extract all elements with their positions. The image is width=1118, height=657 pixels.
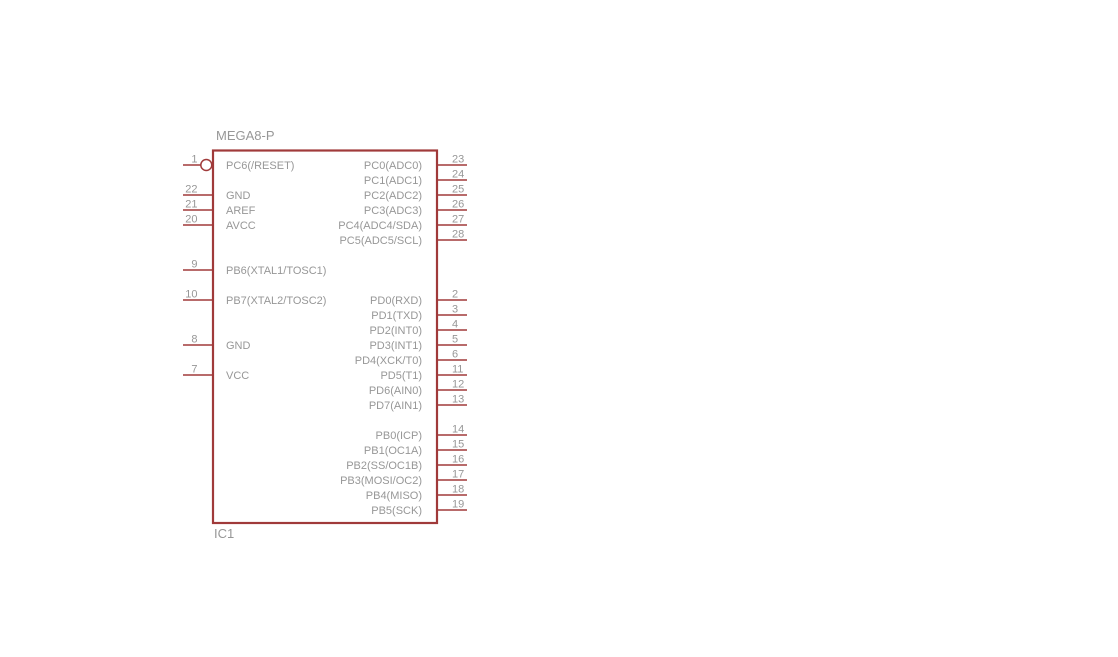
svg-text:13: 13 [452, 394, 464, 406]
IC1 pin 12 PD6 [369, 379, 467, 398]
svg-text:PC6(/RESET): PC6(/RESET) [226, 160, 294, 172]
IC1 pin 1 PC6(/RESET) [183, 154, 294, 173]
svg-text:17: 17 [452, 469, 464, 481]
svg-text:PB3(MOSI/OC2): PB3(MOSI/OC2) [340, 475, 422, 487]
IC1 pin 27 PC4 [338, 214, 467, 233]
svg-text:PB2(SS/OC1B): PB2(SS/OC1B) [346, 460, 422, 472]
svg-text:IC1: IC1 [214, 526, 234, 541]
svg-text:PC4(ADC4/SDA): PC4(ADC4/SDA) [338, 220, 422, 232]
IC1 pin 5 PD3 [369, 334, 467, 353]
svg-text:11: 11 [452, 364, 463, 376]
IC1 pin 16 PB2 [346, 454, 467, 473]
svg-text:PB6(XTAL1/TOSC1): PB6(XTAL1/TOSC1) [226, 265, 326, 277]
IC1 pin 19 PB5 [371, 499, 467, 518]
svg-text:21: 21 [185, 199, 197, 211]
svg-text:PB7(XTAL2/TOSC2): PB7(XTAL2/TOSC2) [226, 295, 326, 307]
svg-text:25: 25 [452, 184, 464, 196]
IC1 pin 25 PC2 [364, 184, 467, 203]
IC1 pin 9 PB6 [183, 259, 326, 278]
IC1 pin 13 PD7 [369, 394, 467, 413]
svg-text:PD5(T1): PD5(T1) [380, 370, 422, 382]
svg-text:PC5(ADC5/SCL): PC5(ADC5/SCL) [339, 235, 422, 247]
svg-text:MEGA8-P: MEGA8-P [216, 128, 275, 143]
svg-text:PC2(ADC2): PC2(ADC2) [364, 190, 422, 202]
svg-text:28: 28 [452, 229, 464, 241]
svg-text:1: 1 [191, 154, 197, 166]
svg-text:24: 24 [452, 169, 464, 181]
svg-text:8: 8 [191, 334, 197, 346]
svg-text:7: 7 [191, 364, 197, 376]
IC1 pin 24 PC1 [364, 169, 467, 188]
svg-text:12: 12 [452, 379, 464, 391]
svg-text:4: 4 [452, 319, 458, 331]
svg-text:18: 18 [452, 484, 464, 496]
IC1 pin 15 PB1 [364, 439, 467, 458]
svg-text:26: 26 [452, 199, 464, 211]
IC1 pin 20 AVCC [183, 214, 256, 233]
svg-text:PD3(INT1): PD3(INT1) [369, 340, 422, 352]
svg-text:5: 5 [452, 334, 458, 346]
IC1 pin 28 PC5 [339, 229, 467, 248]
svg-text:16: 16 [452, 454, 464, 466]
svg-text:PD4(XCK/T0): PD4(XCK/T0) [355, 355, 422, 367]
svg-text:PD7(AIN1): PD7(AIN1) [369, 400, 422, 412]
IC1 pin 14 PB0 [376, 424, 467, 443]
svg-text:PC1(ADC1): PC1(ADC1) [364, 175, 422, 187]
IC1 pin 17 PB3 [340, 469, 467, 488]
IC1 pin 3 PD1 [371, 304, 467, 323]
IC1 pin 23 PC0 [364, 154, 467, 173]
svg-text:10: 10 [185, 289, 197, 301]
svg-text:PD0(RXD): PD0(RXD) [370, 295, 422, 307]
svg-text:20: 20 [185, 214, 197, 226]
svg-text:2: 2 [452, 289, 458, 301]
svg-text:PD1(TXD): PD1(TXD) [371, 310, 422, 322]
IC1 pin 6 PD4 [355, 349, 467, 368]
IC1 pin 10 PB7 [183, 289, 326, 308]
IC1 MEGA8-P body [213, 151, 437, 524]
svg-text:27: 27 [452, 214, 464, 226]
IC1 pin 7 VCC [183, 364, 249, 383]
IC1 pin 8 GND [183, 334, 251, 353]
svg-text:PD2(INT0): PD2(INT0) [369, 325, 422, 337]
svg-text:GND: GND [226, 190, 251, 202]
svg-text:AVCC: AVCC [226, 220, 256, 232]
svg-text:PC0(ADC0): PC0(ADC0) [364, 160, 422, 172]
IC1 pin 26 PC3 [364, 199, 467, 218]
svg-text:PC3(ADC3): PC3(ADC3) [364, 205, 422, 217]
svg-text:GND: GND [226, 340, 251, 352]
svg-text:VCC: VCC [226, 370, 249, 382]
svg-text:22: 22 [185, 184, 197, 196]
svg-text:6: 6 [452, 349, 458, 361]
svg-text:PD6(AIN0): PD6(AIN0) [369, 385, 422, 397]
IC1 pin 4 PD2 [369, 319, 467, 338]
IC1 pin 18 PB4 [366, 484, 467, 503]
svg-text:19: 19 [452, 499, 464, 511]
IC1 pin 21 AREF [183, 199, 256, 218]
svg-text:23: 23 [452, 154, 464, 166]
svg-text:9: 9 [191, 259, 197, 271]
svg-text:14: 14 [452, 424, 464, 436]
IC1 pin 22 GND [183, 184, 251, 203]
svg-text:PB4(MISO): PB4(MISO) [366, 490, 422, 502]
svg-text:3: 3 [452, 304, 458, 316]
svg-text:AREF: AREF [226, 205, 256, 217]
svg-text:PB0(ICP): PB0(ICP) [376, 430, 422, 442]
IC1 pin 2 PD0 [370, 289, 467, 308]
IC1 pin 11 PD5 [380, 364, 467, 383]
svg-text:15: 15 [452, 439, 464, 451]
svg-text:PB1(OC1A): PB1(OC1A) [364, 445, 422, 457]
svg-text:PB5(SCK): PB5(SCK) [371, 505, 422, 517]
